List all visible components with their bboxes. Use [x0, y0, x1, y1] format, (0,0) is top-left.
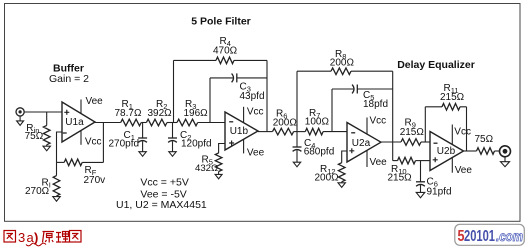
resistor R6 [273, 128, 294, 135]
wire node to RI [56, 162, 58, 175]
ground (input connector) [17, 121, 24, 126]
wire U2a output to R9 [381, 141, 401, 143]
svg-text:270Ω: 270Ω [25, 186, 50, 197]
svg-text:215Ω: 215Ω [440, 92, 465, 103]
wire R8 down to U2a output and R10 rail [351, 71, 393, 160]
svg-text:U1b: U1b [230, 126, 249, 137]
wire R5 to ground [218, 172, 220, 175]
wire to R10 [393, 160, 398, 162]
U1a Vee pin [80, 100, 82, 114]
svg-text:Vcc: Vcc [370, 116, 387, 127]
svg-text:270v: 270v [84, 175, 106, 186]
resistor R10 [398, 157, 416, 164]
svg-text:43pfd: 43pfd [240, 91, 265, 102]
U2a - input sign [351, 132, 355, 134]
U1a Vcc pin [80, 131, 82, 145]
wire U2b output to 75Ω [464, 150, 477, 152]
U2b Vee pin [451, 158, 453, 173]
ground (RI) [53, 197, 60, 202]
wire 75Ω to output connector [495, 150, 500, 152]
wire C5 to output node [357, 88, 392, 90]
wire node up to C5 [332, 89, 353, 132]
wire node up to R8 [297, 71, 331, 131]
capacitor C6 [416, 182, 425, 186]
svg-text:120pfd: 120pfd [181, 139, 212, 150]
wire C3 to U1b output [237, 77, 267, 79]
wire R6 to R7 [294, 131, 306, 133]
svg-text:215Ω: 215Ω [388, 173, 413, 184]
wire node to C2 [172, 123, 174, 138]
wire RF to U1a output [82, 123, 103, 163]
svg-text:Vcc = +5V: Vcc = +5V [140, 177, 188, 189]
svg-text:215Ω: 215Ω [400, 127, 425, 138]
U2a + input sign [349, 148, 354, 153]
resistor RI [53, 176, 60, 196]
svg-text:.com: .com [496, 229, 523, 244]
wire C6 to ground [420, 185, 422, 192]
ground (R5) [215, 174, 222, 179]
input connector J1 [16, 108, 24, 121]
U2b + input sign [433, 157, 438, 162]
wire node up to R11 [425, 107, 442, 142]
svg-text:U2b: U2b [437, 146, 456, 157]
wire input to U1a + input [24, 111, 62, 113]
wire C1 to ground [142, 141, 144, 151]
capacitor C5 [352, 85, 357, 94]
svg-text:Vee: Vee [86, 96, 104, 107]
svg-text:Delay Equalizer: Delay Equalizer [397, 59, 475, 71]
resistor R1 [121, 119, 142, 126]
svg-text:Gain = 2: Gain = 2 [49, 73, 89, 85]
svg-text:Vcc: Vcc [247, 106, 264, 117]
U1a + input sign [64, 110, 69, 115]
wire R11 down to output [460, 107, 467, 151]
ground (R12) [338, 183, 345, 188]
svg-text:78.7Ω: 78.7Ω [115, 108, 142, 119]
resistor RF [64, 159, 82, 166]
wire node to C6 [420, 161, 422, 182]
wire C4 to ground [296, 150, 298, 162]
wire to RF [57, 161, 65, 163]
svg-text:Vee: Vee [247, 148, 265, 159]
svg-text:): ) [34, 230, 38, 245]
resistor 75Ω output [477, 148, 495, 155]
wire U1a - input to feedback node [57, 132, 63, 162]
ground (C6) [416, 192, 425, 197]
U2b - input sign [434, 142, 438, 144]
svg-text:Vcc: Vcc [454, 126, 471, 137]
svg-text:680pfd: 680pfd [304, 147, 335, 158]
wire R10 to U2b + input [416, 160, 431, 162]
U2a Vee pin [366, 150, 368, 167]
svg-text:270pfd: 270pfd [109, 139, 140, 150]
wire R4 to U1b output [234, 60, 267, 131]
op-amp U1a [62, 102, 95, 142]
svg-text:100Ω: 100Ω [305, 117, 330, 128]
resistor R3 [177, 119, 198, 126]
svg-text:Vee: Vee [370, 157, 388, 168]
wire C2 to ground [172, 141, 174, 151]
svg-text:Vcc: Vcc [85, 137, 102, 148]
resistor R8 [331, 68, 351, 75]
ground (Rin) [43, 146, 50, 151]
svg-text:200Ω: 200Ω [330, 58, 355, 69]
wire node up to R4 [174, 60, 217, 122]
wire R9 to U2b - input [421, 141, 430, 143]
ground (C2) [169, 152, 176, 157]
U1b Vee pin [243, 139, 245, 153]
U1b + input sign [229, 141, 234, 146]
caption wavy underline [26, 243, 46, 246]
wire U1b output to R6 [258, 131, 273, 133]
svg-text:75Ω: 75Ω [25, 131, 44, 142]
wire node to Rin [46, 112, 48, 125]
wire Rin to ground [46, 145, 48, 146]
svg-text:Vee: Vee [455, 165, 473, 176]
svg-text:U1, U2 = MAX4451: U1, U2 = MAX4451 [116, 199, 207, 211]
resistor R9 [401, 139, 421, 146]
ground (C4) [293, 162, 300, 167]
svg-text:U2a: U2a [352, 138, 371, 149]
resistor R7 [305, 128, 323, 135]
svg-text:432Ω: 432Ω [195, 163, 218, 174]
svg-text:91pfd: 91pfd [427, 186, 452, 197]
capacitor C4 [293, 147, 302, 151]
svg-text:392Ω: 392Ω [148, 108, 173, 119]
svg-text:18pfd: 18pfd [363, 99, 388, 110]
resistor R11 [442, 104, 460, 111]
wire node to C4 [296, 132, 298, 147]
wire RI to ground [56, 195, 58, 198]
svg-text:470Ω: 470Ω [213, 45, 238, 56]
U2a Vcc pin [366, 118, 368, 135]
wire R12 to ground [341, 182, 343, 183]
wire U2a + input to R12 [342, 151, 347, 163]
wire R7 to U2a - input [323, 131, 347, 133]
wire U1a output to R1 [95, 122, 121, 124]
ground (output connector) [501, 162, 510, 167]
wire R3 to U1b - input [198, 122, 225, 124]
op-amp U1b [225, 112, 258, 150]
wire node to C1 [142, 123, 144, 138]
wire R1 to R2 [141, 122, 146, 124]
U2b Vcc pin [451, 125, 453, 145]
wire U1b + input to R5 [219, 144, 225, 154]
wire R2 to R3 [167, 122, 177, 124]
resistor R5 [215, 153, 222, 171]
caption: 图3a）原理图 (red) [4, 230, 81, 246]
svg-text:5 Pole Filter: 5 Pole Filter [191, 16, 251, 28]
svg-text:U1a: U1a [65, 117, 84, 128]
capacitor C1 [138, 138, 147, 142]
U1a - input sign [63, 132, 67, 134]
wire node up to C3 [210, 78, 233, 123]
op-amp U2a [347, 123, 381, 163]
resistor R12 [338, 163, 345, 182]
resistor R4 [216, 57, 234, 64]
capacitor C2 [168, 138, 177, 142]
svg-text:196Ω: 196Ω [184, 108, 209, 119]
svg-text:20101: 20101 [464, 228, 495, 245]
watermark logo 520101.com [455, 224, 525, 245]
svg-text:200Ω: 200Ω [273, 117, 298, 128]
svg-text:3: 3 [18, 230, 25, 245]
op-amp U2b [430, 132, 464, 171]
ground (C1) [139, 152, 146, 157]
U1b Vcc pin [243, 107, 245, 123]
resistor R2 [146, 119, 167, 126]
svg-text:75Ω: 75Ω [475, 134, 494, 145]
svg-text:200Ω: 200Ω [315, 173, 340, 184]
capacitor C3 [232, 73, 237, 82]
output connector J2 [500, 146, 511, 162]
U1b - input sign [229, 121, 233, 123]
resistor Rin [43, 125, 50, 144]
